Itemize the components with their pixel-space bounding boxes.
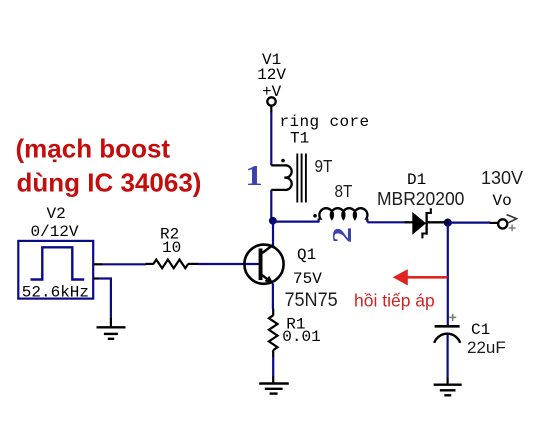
- junction node output: [444, 219, 452, 227]
- step stub left of secondary: [318, 219, 320, 223]
- svg-text:1: 1: [245, 160, 262, 191]
- wire T1 primary to collector node: [270, 190, 272, 222]
- T1 secondary polarity dot: [313, 214, 317, 218]
- D1 anode lead: [405, 221, 414, 223]
- T1 primary winding (vertical, 9T): [271, 165, 291, 190]
- svg-text:V2: V2: [47, 205, 66, 223]
- T1 secondary winding (horizontal, 8T): [319, 208, 368, 218]
- wire R2 to Q1 base: [198, 263, 259, 265]
- wire node to T1 secondary: [273, 221, 319, 223]
- svg-text:0/12V: 0/12V: [31, 223, 79, 241]
- svg-text:130V: 130V: [481, 168, 523, 188]
- R1 top lead: [272, 309, 274, 316]
- Q1 collector line: [262, 244, 274, 253]
- V2 minus stub: [94, 277, 100, 279]
- wire V2 to R2: [102, 263, 146, 265]
- wire to output port: [449, 222, 490, 224]
- junction node collector/primary: [269, 217, 277, 225]
- R1 bottom lead: [272, 350, 274, 357]
- capacitor C1 plus sign: [449, 314, 456, 321]
- svg-text:12V: 12V: [257, 66, 286, 84]
- svg-text:T1: T1: [290, 130, 309, 148]
- svg-text:Vo: Vo: [493, 192, 512, 210]
- C1 bottom plate (polar arc): [434, 334, 460, 343]
- D1 triangle: [412, 212, 426, 235]
- D1 cathode lead: [427, 221, 445, 223]
- svg-text:9T: 9T: [315, 156, 333, 176]
- svg-text:hồi tiếp áp: hồi tiếp áp: [354, 291, 435, 311]
- svg-text:dùng IC 34063): dùng IC 34063): [17, 168, 202, 198]
- output port circle Vo: [498, 219, 507, 228]
- wire output node down to C1 (feedback rail): [447, 224, 449, 326]
- feedback arrow (red): [393, 269, 448, 285]
- wire R1 to ground: [272, 357, 274, 377]
- title annotation (mạch boost dùng IC 34063): [16, 134, 202, 198]
- R1 ground stem: [272, 377, 274, 384]
- svg-text:8T: 8T: [335, 181, 353, 201]
- wire V2 minus to ground: [99, 279, 111, 319]
- svg-text:22uF: 22uF: [467, 338, 506, 357]
- svg-text:MBR20200: MBR20200: [377, 189, 464, 210]
- wire emitter to R1: [272, 284, 274, 310]
- D1 schottky cathode bar: [422, 208, 430, 238]
- Q1 emitter line: [262, 275, 272, 284]
- svg-text:C1: C1: [471, 321, 490, 339]
- T1 core bar 1: [296, 154, 298, 203]
- C1 ground stem: [447, 377, 449, 385]
- V2 body box: [18, 241, 93, 299]
- +V terminal circle: [267, 97, 275, 105]
- svg-text:Q1: Q1: [297, 246, 316, 264]
- wire C1 to ground: [447, 335, 449, 378]
- wire +V to T1 primary: [270, 112, 272, 165]
- R2 left lead: [146, 263, 154, 265]
- V2 pulse waveform: [31, 247, 85, 279]
- ground (R1/emitter): [259, 384, 289, 394]
- svg-text:75V: 75V: [293, 270, 322, 288]
- svg-text:ring core: ring core: [280, 113, 370, 131]
- C1 top plate: [435, 325, 460, 328]
- T1 core bar 3: [305, 154, 307, 203]
- V2 ground stem: [110, 318, 112, 327]
- Q1 base bar: [259, 249, 263, 281]
- V2 plus stub: [94, 263, 103, 265]
- wire collector to junction: [272, 222, 274, 246]
- Q1 emitter arrowhead: [265, 276, 274, 285]
- svg-text:0.01: 0.01: [282, 328, 320, 346]
- output lead black: [490, 222, 498, 224]
- svg-text:75N75: 75N75: [285, 289, 338, 311]
- wire secondary to D1: [367, 221, 405, 223]
- T1 primary polarity dot: [281, 159, 285, 163]
- svg-text:10: 10: [162, 239, 181, 257]
- output port chevron: [507, 215, 517, 224]
- terminal stem: [270, 106, 272, 113]
- resistor R1 zigzag: [269, 315, 278, 350]
- svg-text:D1: D1: [407, 171, 426, 189]
- transistor Q1 circle: [244, 245, 283, 284]
- ground (C1): [434, 385, 462, 396]
- svg-text:52.6kHz: 52.6kHz: [22, 284, 89, 302]
- R2 right lead: [188, 263, 198, 265]
- ground (V2): [97, 327, 126, 339]
- svg-text:(mạch boost: (mạch boost: [16, 134, 171, 164]
- step stub right of secondary: [366, 219, 368, 223]
- R2 zigzag: [153, 260, 188, 269]
- svg-text:2: 2: [328, 227, 357, 243]
- output port plus sign: [509, 225, 516, 232]
- T1 core bar 2: [301, 154, 303, 203]
